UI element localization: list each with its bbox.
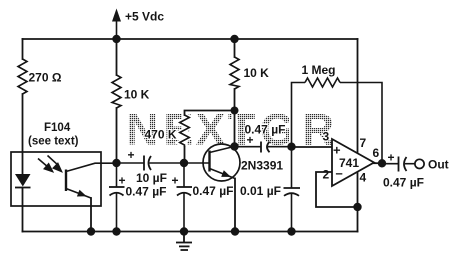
capacitor 0.01uF [240,147,300,232]
wire op-amp output stub [374,162,382,164]
wire 10K no.2 branch lower [234,89,236,111]
wire bottom ground rail [23,231,358,233]
svg-text:4: 4 [360,171,367,185]
svg-text:(see text): (see text) [28,136,79,148]
resistor 470K [145,115,190,147]
node junction dot output [378,159,386,167]
wire op-amp pin7 supply [357,39,359,153]
node junction dot pin2/pin4 [353,203,361,211]
svg-text:7: 7 [360,136,367,150]
wire op-amp pin3 input [292,146,333,148]
node junction dot collector/10uF [112,159,120,167]
wire emitter to bottom rail [234,179,236,232]
wire 10K no.1 branch upper [116,39,118,75]
svg-text:2N3391: 2N3391 [241,159,283,173]
svg-text:0.01 µF: 0.01 µF [240,184,281,198]
wire left branch upper [22,39,24,59]
out terminal [415,158,449,172]
svg-text:+5 Vdc: +5 Vdc [125,10,164,24]
wire 10K no.2 branch upper [234,39,236,57]
capacitor 0.47uF no.1 [109,163,166,232]
transistor Q1 2N3391 [184,144,283,181]
LED photodiode [15,174,31,188]
svg-text:+: + [119,174,126,188]
wire 10K no.1 branch lower [116,108,118,163]
svg-text:10 K: 10 K [244,66,270,80]
svg-text:0.47 µF: 0.47 µF [193,184,234,198]
svg-text:741: 741 [339,156,359,170]
wire collector feed [234,111,236,147]
svg-text:0.47 µF: 0.47 µF [245,123,286,137]
node junction dot rail/10K no.2 [230,35,238,43]
resistor 270 ohm [18,59,62,94]
svg-text:6: 6 [373,146,380,160]
wire +5V top rail [23,38,358,40]
wire op-amp pin4 to bottom rail [357,172,359,232]
node junction dot pin3/1Meg/0.01uF [287,143,295,151]
node junction dot base node [180,159,188,167]
node junction dot 470K/10K no.2 [231,107,239,115]
svg-text:10 K: 10 K [124,88,150,102]
svg-text:10 µF: 10 µF [136,171,167,185]
light arrows [38,156,61,172]
resistor 1 Meg feedback [292,63,383,163]
op-amp U1 741 [323,130,380,187]
capacitor 0.47uF no.2 [172,163,234,232]
wire left branch lower (diode to bottom rail) [22,188,24,232]
svg-text:+: + [128,148,135,162]
resistor 10K no.2 [230,57,269,89]
svg-text:Out: Out [428,158,449,172]
wire left branch mid (270 ohm to diode) [22,94,24,174]
wire 470K top link [185,111,235,116]
svg-text:+: + [388,151,395,165]
svg-text:470 K: 470 K [145,128,177,142]
phototransistor [66,163,117,198]
wire 470K to base node [184,147,186,163]
svg-text:0.47 µF: 0.47 µF [383,176,424,190]
node junction dot phototransistor emitter/rail [87,227,95,235]
capacitor 0.47uF no.3 [235,123,292,153]
node junction dot cap1/rail [112,227,120,235]
+5 Vdc supply arrow [112,9,164,40]
ground [176,232,192,251]
svg-text:1 Meg: 1 Meg [302,63,336,77]
node junction dot rail/10K no.1 [112,35,120,43]
wire op-amp pin2 loop [316,172,358,207]
node junction dot collector/cap3 [230,142,238,150]
svg-text:2: 2 [323,168,330,182]
capacitor 0.47uF output [382,151,424,190]
svg-text:270 Ω: 270 Ω [29,71,62,85]
resistor 10K no.1 [112,75,150,108]
wire phototransistor emitter down [90,198,92,232]
node junction dot emitter/rail [231,227,239,235]
node junction dot cap2/ground stem [180,227,188,235]
svg-text:3: 3 [323,130,330,144]
svg-text:F104: F104 [44,122,71,134]
capacitor 10uF [117,148,185,185]
svg-text:0.47 µF: 0.47 µF [126,185,167,199]
svg-text:+: + [172,174,179,188]
optocoupler F104 box [11,122,101,206]
node junction dot 0.01uF/rail [287,227,295,235]
